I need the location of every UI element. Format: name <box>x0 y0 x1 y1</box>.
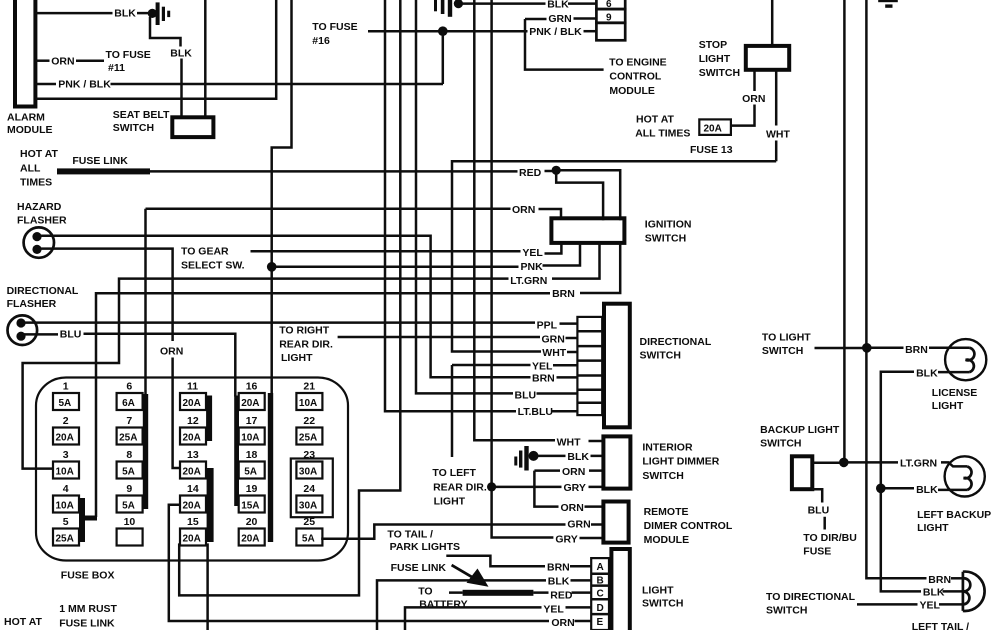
svg-text:LIGHT DIMMER: LIGHT DIMMER <box>642 456 719 468</box>
wire bus B3 (to BLU directional) <box>416 0 513 393</box>
wire to gear select to YEL ignition <box>251 250 521 253</box>
svg-text:11: 11 <box>187 381 198 393</box>
ground G2 junction dot <box>454 0 463 8</box>
fuse box bus bar col1 stub <box>79 516 97 521</box>
svg-text:BLK: BLK <box>923 586 945 598</box>
fuse box bus bar col4 right <box>268 393 273 542</box>
wire to fuse 16 feed <box>368 30 440 33</box>
wire GRY label to remote module <box>580 537 604 540</box>
svg-text:6: 6 <box>126 381 132 393</box>
svg-text:TO DIR/BU: TO DIR/BU <box>803 532 856 544</box>
wire bus B1 (to LT.BLU) <box>385 0 516 411</box>
svg-text:WHT: WHT <box>766 129 790 141</box>
svg-text:YEL: YEL <box>543 604 564 616</box>
svg-text:PNK / BLK: PNK / BLK <box>58 79 111 91</box>
svg-text:LEFT BACKUP: LEFT BACKUP <box>917 509 991 521</box>
wire BRN into left tail bulb <box>951 577 963 580</box>
node J6 (backup junction) <box>839 458 849 468</box>
remote dimmer control module body <box>603 502 628 543</box>
svg-text:1: 1 <box>63 381 69 393</box>
svg-text:BACKUP LIGHT: BACKUP LIGHT <box>760 424 840 436</box>
svg-text:FUSE 13: FUSE 13 <box>690 144 733 156</box>
wire WHT label to connector <box>567 351 577 354</box>
svg-text:20A: 20A <box>183 398 201 409</box>
svg-text:25A: 25A <box>299 433 317 444</box>
svg-text:#11: #11 <box>108 62 125 74</box>
wire hazard bottom to fuse 13 <box>40 249 180 468</box>
wire alarm bottom to top edge <box>35 0 276 99</box>
directional switch body <box>604 304 630 428</box>
fuse link arrow <box>452 565 475 579</box>
backup light switch body <box>792 456 812 489</box>
node J7 (backup BLK junction) <box>876 484 886 494</box>
wire BLK to light switch B <box>377 580 591 630</box>
svg-text:10: 10 <box>124 516 136 528</box>
fuse link FL1 thick bar <box>57 168 150 174</box>
svg-text:9: 9 <box>126 483 132 495</box>
svg-text:LT.BLU: LT.BLU <box>518 406 553 418</box>
wire RED thin lead <box>449 591 591 594</box>
svg-text:20A: 20A <box>241 398 259 409</box>
wire bus B4 (to WHT interior dimmer) <box>474 0 555 440</box>
svg-text:A: A <box>597 562 604 573</box>
wire alarm PNK/BLK <box>35 83 443 86</box>
connector C1 cell 9 <box>596 9 625 23</box>
directional connector strip <box>577 317 602 415</box>
wire fuse 25 to remote dimmer GRN <box>321 525 565 539</box>
fuse box bus bar col2 <box>143 394 148 509</box>
directional flasher body <box>7 315 37 345</box>
wire alarm BLK <box>35 12 112 15</box>
fuse 13 20A box <box>699 119 731 134</box>
svg-text:BLU: BLU <box>515 390 537 402</box>
wire WHT label to dimmer <box>589 440 604 443</box>
wire PNK from junction to ignition <box>272 243 580 267</box>
svg-text:IGNITION: IGNITION <box>645 218 692 230</box>
wire ORN label to cell E <box>575 620 592 623</box>
svg-text:1 MM RUST: 1 MM RUST <box>59 603 117 615</box>
svg-text:ALARM: ALARM <box>7 112 45 124</box>
svg-text:PNK: PNK <box>521 261 544 273</box>
hazard flasher terminal dots <box>32 232 41 241</box>
svg-text:LIGHT: LIGHT <box>642 584 674 596</box>
svg-text:18: 18 <box>246 449 258 461</box>
svg-text:RED: RED <box>550 589 573 601</box>
wire GRN to connector 9 <box>525 17 596 20</box>
wire ORN ignition feed through fuse box <box>144 209 147 395</box>
wire BLK license light <box>881 372 970 592</box>
ground G4 junction dot <box>529 451 539 461</box>
svg-text:ORN: ORN <box>561 502 584 514</box>
left backup light bulb <box>945 456 985 496</box>
svg-text:23: 23 <box>303 449 315 461</box>
svg-text:16: 16 <box>246 381 258 393</box>
svg-text:ORN: ORN <box>51 56 74 68</box>
wire BLK to connector 6 <box>463 2 597 5</box>
wire stop light WHT pin <box>775 70 778 161</box>
svg-text:SWITCH: SWITCH <box>699 67 740 79</box>
directional flasher terminal dots <box>16 318 25 327</box>
fuse box outline <box>36 378 348 561</box>
svg-text:BLK: BLK <box>567 451 589 463</box>
svg-text:SWITCH: SWITCH <box>113 122 154 134</box>
svg-text:HAZARD: HAZARD <box>17 201 62 213</box>
svg-text:RED: RED <box>519 167 542 179</box>
svg-text:MODULE: MODULE <box>7 124 53 136</box>
wire seat belt switch feed from top <box>204 0 207 117</box>
svg-text:BLK: BLK <box>916 484 938 496</box>
ground G4 bars (interior dimmer) <box>514 457 517 466</box>
svg-text:GRN: GRN <box>567 519 590 531</box>
wire BLK to seat belt switch <box>180 59 183 118</box>
svg-text:30A: 30A <box>299 501 317 512</box>
svg-text:GRN: GRN <box>548 13 571 25</box>
svg-text:GRN: GRN <box>542 333 565 345</box>
svg-text:LIGHT: LIGHT <box>434 495 466 507</box>
svg-text:E: E <box>597 617 604 628</box>
stop light switch body <box>746 46 789 70</box>
wire WHT to directional WHT bus <box>452 161 776 351</box>
svg-text:10A: 10A <box>56 467 74 478</box>
svg-text:SWITCH: SWITCH <box>762 345 803 357</box>
svg-text:INTERIOR: INTERIOR <box>642 441 693 453</box>
svg-text:BRN: BRN <box>552 288 575 300</box>
svg-text:SWITCH: SWITCH <box>766 604 807 616</box>
fuse link FL2 thick bar (to battery) <box>463 590 534 596</box>
svg-text:8: 8 <box>126 449 132 461</box>
svg-text:LT.GRN: LT.GRN <box>510 275 547 287</box>
svg-text:ORN: ORN <box>512 204 535 216</box>
ignition switch body <box>551 218 624 243</box>
license light filament <box>966 348 975 373</box>
svg-text:GRY: GRY <box>564 482 586 494</box>
svg-text:DIRECTIONAL: DIRECTIONAL <box>640 336 712 348</box>
svg-text:20A: 20A <box>704 124 722 135</box>
node J4 (GRY junction) <box>487 482 496 491</box>
svg-text:FLASHER: FLASHER <box>7 298 57 310</box>
svg-text:5A: 5A <box>122 467 135 478</box>
ground G3 remnant (top right) <box>878 0 898 2</box>
svg-text:#16: #16 <box>312 35 330 47</box>
left tail light bulb <box>963 572 985 611</box>
svg-text:B: B <box>597 575 604 586</box>
svg-text:LIGHT: LIGHT <box>281 352 313 364</box>
fuse 23/24 enclosure <box>291 459 333 518</box>
svg-text:5A: 5A <box>302 534 315 545</box>
svg-text:YEL: YEL <box>522 247 543 259</box>
fuse box bus bar col1 <box>79 498 85 542</box>
wire LT.GRN to ignition pin <box>552 243 600 279</box>
svg-text:4: 4 <box>63 483 69 495</box>
wire fuse link to RED <box>150 170 518 173</box>
svg-text:REAR DIR.: REAR DIR. <box>279 338 333 350</box>
wire ORN ignition <box>146 208 511 211</box>
svg-text:ORN: ORN <box>551 617 574 629</box>
svg-text:D: D <box>597 603 604 614</box>
svg-text:CONTROL: CONTROL <box>609 71 661 83</box>
svg-text:5A: 5A <box>122 501 135 512</box>
wire GRY to dimmer <box>492 486 604 489</box>
svg-text:25A: 25A <box>56 534 74 545</box>
light switch body <box>611 549 629 630</box>
svg-text:5A: 5A <box>59 398 72 409</box>
svg-text:STOP: STOP <box>699 39 727 51</box>
svg-text:TIMES: TIMES <box>20 176 52 188</box>
left tail filament <box>963 578 970 604</box>
wire bus B5 (to GRY) <box>492 0 554 538</box>
svg-text:FUSE LINK: FUSE LINK <box>391 562 447 574</box>
wire jog bus to PNK ignition and fuse 16 <box>272 0 292 394</box>
wire YEL directional <box>452 364 577 367</box>
svg-text:SWITCH: SWITCH <box>645 232 686 244</box>
wire BLK backup <box>884 488 968 490</box>
svg-text:LIGHT: LIGHT <box>917 522 949 534</box>
wire YEL to light switch D <box>405 607 591 630</box>
wire fuse 15 right pin down <box>206 543 209 630</box>
node J2 (PNK junction) <box>267 262 277 272</box>
svg-text:5A: 5A <box>244 467 257 478</box>
svg-text:FUSE LINK: FUSE LINK <box>72 155 128 167</box>
svg-text:TO LIGHT: TO LIGHT <box>762 332 811 344</box>
wire stop light ORN pin <box>731 70 755 126</box>
svg-text:TO GEAR: TO GEAR <box>181 245 229 257</box>
wire BLK ground to dimmer <box>538 455 603 458</box>
wire YEL left tail <box>857 603 963 606</box>
wire fuse 14 to light switch E <box>169 505 549 621</box>
ground G1 bars <box>156 2 160 25</box>
svg-text:WHT: WHT <box>542 347 566 359</box>
wire BRN to license light <box>869 347 969 350</box>
wire ORN to fuse 11 <box>76 59 104 62</box>
wire BLK left tail <box>943 590 963 593</box>
svg-text:BLU: BLU <box>808 504 830 516</box>
svg-text:TO DIRECTIONAL: TO DIRECTIONAL <box>766 591 856 603</box>
svg-text:BLK: BLK <box>170 48 192 60</box>
svg-text:3: 3 <box>63 449 69 461</box>
wire backup switch to junction <box>812 462 841 465</box>
hazard flasher body <box>24 227 54 257</box>
svg-text:BRN: BRN <box>547 561 570 573</box>
wire bus B2 (to fuse 15) <box>179 0 400 595</box>
wire BRN to ignition pin <box>580 243 620 293</box>
svg-text:BRN: BRN <box>532 373 555 385</box>
wire GRN label to connector <box>566 337 578 340</box>
interior light dimmer switch body <box>603 436 630 488</box>
wire stop light switch feed from top <box>771 0 774 46</box>
svg-text:24: 24 <box>303 483 315 495</box>
wire YEL to ignition pin <box>545 243 562 254</box>
svg-text:GRY: GRY <box>555 534 577 546</box>
left backup filament <box>964 466 972 490</box>
svg-text:PNK / BLK: PNK / BLK <box>529 26 582 38</box>
alarm module body <box>15 0 35 107</box>
svg-text:LEFT TAIL /: LEFT TAIL / <box>912 621 969 630</box>
wire LT.GRN left to fuse 3 <box>23 279 509 469</box>
svg-text:22: 22 <box>303 415 315 427</box>
svg-text:SWITCH: SWITCH <box>640 350 681 362</box>
svg-text:SWITCH: SWITCH <box>642 470 683 482</box>
svg-text:20A: 20A <box>56 433 74 444</box>
connector C1 cell 6 <box>596 0 625 9</box>
svg-text:7: 7 <box>126 415 132 427</box>
svg-text:TO ENGINE: TO ENGINE <box>609 56 667 68</box>
svg-text:TO FUSE: TO FUSE <box>312 21 357 33</box>
svg-text:ORN: ORN <box>742 93 765 105</box>
svg-text:20A: 20A <box>183 467 201 478</box>
wire ORN dimmer stub <box>534 471 603 507</box>
svg-text:REMOTE: REMOTE <box>644 506 689 518</box>
svg-text:20A: 20A <box>183 501 201 512</box>
ground G2 bars (top center) <box>434 0 437 11</box>
wire LT.BLU label to connector <box>552 410 577 413</box>
fuse box bus bar col3 lower <box>207 468 214 542</box>
wire BLU label to connector <box>537 392 578 395</box>
svg-text:6: 6 <box>606 0 612 10</box>
svg-text:25: 25 <box>303 516 315 528</box>
svg-text:DIMER CONTROL: DIMER CONTROL <box>644 520 733 532</box>
svg-text:BLK: BLK <box>547 0 569 11</box>
svg-text:6A: 6A <box>122 398 135 409</box>
svg-text:HOT AT: HOT AT <box>4 616 42 628</box>
wire bus B6 (to backup light dot) <box>843 0 846 462</box>
wire hazard top to BRN directional <box>40 236 531 377</box>
node J3 (RED junction) <box>552 166 561 175</box>
svg-text:ALL TIMES: ALL TIMES <box>635 127 690 139</box>
svg-text:FUSE BOX: FUSE BOX <box>61 569 115 581</box>
svg-text:SWITCH: SWITCH <box>760 437 801 449</box>
svg-text:BLK: BLK <box>114 8 136 20</box>
wire J1 to connector PNK/BLK <box>445 30 528 33</box>
ground G1 junction dot <box>148 9 157 18</box>
svg-text:20: 20 <box>246 516 258 528</box>
svg-text:10A: 10A <box>241 433 259 444</box>
svg-text:HOT AT: HOT AT <box>636 113 674 125</box>
svg-text:MODULE: MODULE <box>609 85 655 97</box>
svg-text:C: C <box>597 589 604 600</box>
svg-text:BLU: BLU <box>60 328 82 340</box>
svg-text:LICENSE: LICENSE <box>932 387 978 399</box>
svg-text:10A: 10A <box>56 501 74 512</box>
svg-text:2: 2 <box>63 415 69 427</box>
svg-text:YEL: YEL <box>920 599 941 611</box>
wire BLU flasher to fuse 19 <box>24 334 235 397</box>
svg-text:DIRECTIONAL: DIRECTIONAL <box>7 285 79 297</box>
svg-text:9: 9 <box>606 13 612 24</box>
svg-text:FUSE LINK: FUSE LINK <box>59 617 115 629</box>
fuse box bus bar col4 left <box>234 396 239 507</box>
svg-text:FUSE: FUSE <box>803 546 831 558</box>
svg-text:PARK LIGHTS: PARK LIGHTS <box>390 541 460 553</box>
svg-text:BLK: BLK <box>548 575 570 587</box>
wire GRN directional (to right rear dir light) <box>338 336 540 339</box>
node J1 (PNK/BLK junction) <box>438 26 448 36</box>
wire to left rear dir light (dangling) <box>451 365 454 457</box>
wire BRN label to connector <box>557 376 578 379</box>
svg-text:ORN: ORN <box>562 466 585 478</box>
svg-text:13: 13 <box>187 449 199 461</box>
svg-text:LT.GRN: LT.GRN <box>900 458 937 470</box>
svg-text:WHT: WHT <box>557 437 581 449</box>
wire ORN label to ignition pin <box>539 209 562 218</box>
wire PPL (directional flasher to switch) <box>24 321 535 324</box>
svg-text:FLASHER: FLASHER <box>17 215 67 227</box>
svg-text:TO: TO <box>418 585 432 597</box>
svg-text:25A: 25A <box>119 433 137 444</box>
wire PNK/BLK label to connector pin <box>584 30 597 33</box>
svg-text:BRN: BRN <box>905 344 928 356</box>
wire ground G1 stem to seat belt switch <box>150 17 181 47</box>
seat belt switch body <box>172 117 213 137</box>
svg-text:21: 21 <box>303 381 315 393</box>
svg-text:TO RIGHT: TO RIGHT <box>279 324 330 336</box>
wire BLK label to ground dot <box>137 12 149 15</box>
license light bulb <box>945 339 986 380</box>
node J5 (light switch junction) <box>862 343 872 353</box>
svg-text:SEAT BELT: SEAT BELT <box>113 109 170 121</box>
wire RED label to junction <box>545 170 554 173</box>
wire RED to ignition pins <box>556 170 620 220</box>
svg-text:15A: 15A <box>241 501 259 512</box>
wire LT.GRN to backup bulb <box>846 462 967 466</box>
svg-text:TO TAIL /: TO TAIL / <box>387 528 433 540</box>
svg-text:LIGHT: LIGHT <box>932 400 964 412</box>
wire GRN label to remote module <box>591 523 603 526</box>
wire to light switch junction <box>815 347 865 350</box>
fuse box bus bar col3 upper <box>206 396 212 442</box>
svg-text:YEL: YEL <box>532 360 553 372</box>
svg-text:SELECT SW.: SELECT SW. <box>181 259 245 271</box>
wire alarm ORN <box>35 59 49 62</box>
svg-text:15: 15 <box>187 516 199 528</box>
svg-text:ORN: ORN <box>160 345 183 357</box>
svg-text:HOT AT: HOT AT <box>20 148 58 160</box>
wire GRN to engine control module <box>525 19 604 70</box>
svg-text:BLK: BLK <box>916 367 938 379</box>
connector C1 cell 3 <box>596 23 625 41</box>
svg-text:14: 14 <box>187 483 199 495</box>
svg-text:BRN: BRN <box>928 574 951 586</box>
wire J1 down to alarm PNK/BLK <box>442 31 445 84</box>
svg-text:17: 17 <box>246 415 258 427</box>
svg-text:10A: 10A <box>299 398 317 409</box>
svg-text:LIGHT: LIGHT <box>699 53 731 65</box>
wire PPL label to connector <box>560 322 578 325</box>
svg-text:PPL: PPL <box>537 320 558 332</box>
svg-text:REAR DIR.: REAR DIR. <box>433 481 487 493</box>
light switch connector strip <box>591 558 609 630</box>
svg-text:12: 12 <box>187 415 199 427</box>
svg-text:30A: 30A <box>299 467 317 478</box>
wire BRN to light switch A <box>446 556 591 567</box>
svg-text:20A: 20A <box>183 534 201 545</box>
svg-text:ALL: ALL <box>20 162 41 174</box>
svg-text:20A: 20A <box>183 433 201 444</box>
svg-text:MODULE: MODULE <box>644 534 690 546</box>
svg-text:TO FUSE: TO FUSE <box>106 49 151 61</box>
svg-text:20A: 20A <box>241 534 259 545</box>
svg-text:19: 19 <box>246 483 258 495</box>
svg-text:5: 5 <box>63 516 69 528</box>
wire backup switch BLU pin <box>812 489 825 529</box>
svg-text:TO LEFT: TO LEFT <box>432 467 476 479</box>
svg-text:SWITCH: SWITCH <box>642 597 683 609</box>
wire BRN left to fuse box column 1 <box>96 293 550 517</box>
wire bus B7 (to left tail BRN) <box>866 0 926 578</box>
